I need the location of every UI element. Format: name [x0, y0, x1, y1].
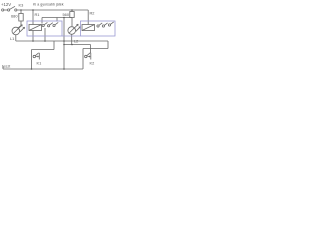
svg-text:K2: K2 — [90, 61, 95, 66]
svg-text:680: 680 — [11, 14, 18, 19]
svg-text:R1: R1 — [35, 12, 40, 17]
svg-text:R2: R2 — [90, 11, 95, 16]
svg-text:teszt: teszt — [2, 64, 11, 69]
svg-text:K3: K3 — [19, 3, 24, 8]
svg-text:L1: L1 — [10, 36, 14, 41]
svg-text:+12V: +12V — [1, 2, 11, 7]
svg-text:K1: K1 — [37, 61, 42, 66]
svg-text:560: 560 — [63, 12, 70, 17]
svg-text:Ki a gyorsabb játék: Ki a gyorsabb játék — [33, 3, 64, 7]
svg-text:L2: L2 — [74, 39, 78, 44]
